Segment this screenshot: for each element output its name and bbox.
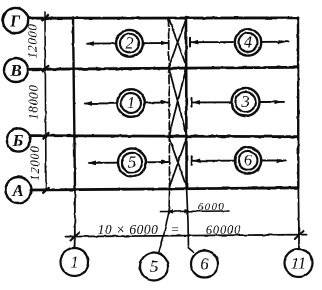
crane 3 circle	[232, 88, 260, 116]
crane 4 right arrowhead	[279, 40, 287, 44]
svg-text:10 × 6000: 10 × 6000	[98, 222, 159, 237]
svg-text:=: =	[171, 222, 180, 237]
bracing X span Б-А	[169, 139, 186, 188]
tick at axis 1	[71, 232, 80, 240]
dimension text 18000 (В-Б)	[27, 84, 41, 119]
arrow tick at axis 6	[185, 209, 191, 213]
dimension line 6000 (bay 5-6)	[161, 210, 229, 213]
dimension text 6000	[198, 201, 226, 213]
axis circle 6	[191, 251, 218, 278]
svg-text:В: В	[9, 61, 21, 80]
svg-text:2: 2	[125, 33, 133, 52]
crane 1 circle	[117, 89, 145, 117]
tick at А	[43, 188, 49, 193]
crane 2 circle	[116, 30, 143, 57]
dimension text 12000 (Б-А)	[28, 145, 42, 180]
svg-text:3: 3	[240, 92, 249, 111]
crane 5 circle	[118, 148, 146, 176]
axis 5 line (strip left)	[169, 17, 170, 190]
crane 5 runway line	[89, 161, 168, 164]
tick at axis 11	[295, 231, 304, 239]
axis circle Б	[7, 128, 30, 151]
bracing X span Г-В	[169, 20, 186, 66]
axis label 6	[200, 255, 209, 274]
axis label А	[11, 181, 23, 200]
equals sign	[171, 222, 180, 237]
axis label 11	[291, 254, 306, 273]
axis label В	[9, 61, 21, 80]
axis 6 extension leader to circle 6	[187, 189, 194, 252]
axis 6 line (strip right)	[185, 17, 188, 188]
svg-text:12000: 12000	[26, 23, 40, 58]
svg-text:6: 6	[200, 255, 209, 274]
crane 2 right arrowhead	[161, 41, 169, 45]
axis 5 extension leader to circle 5	[159, 190, 170, 254]
crane 5 label	[128, 153, 136, 172]
crane 1 right arrowhead	[161, 100, 169, 104]
crane 2 left arrowhead	[86, 41, 95, 46]
crane 6 label	[244, 150, 253, 169]
crane 3 left arrowhead	[192, 100, 200, 105]
svg-text:5: 5	[128, 153, 136, 172]
svg-text:5: 5	[150, 257, 158, 276]
axis label 1	[70, 253, 78, 272]
crane 4 stop bar	[189, 38, 191, 47]
crane 3 stop bar	[191, 98, 193, 107]
svg-text:18000: 18000	[27, 84, 41, 119]
svg-text:11: 11	[291, 254, 306, 273]
axis 11 extension line to circle 11	[297, 188, 300, 249]
crane 6 runway line	[193, 159, 286, 161]
axis 1 extension line to bottom dimension	[74, 190, 76, 248]
crane 6 right arrowhead	[276, 158, 284, 162]
wall axis 1 (left)	[73, 17, 75, 190]
crane 1 runway line	[85, 103, 168, 104]
crane 1 label	[127, 93, 135, 112]
svg-text:А: А	[11, 181, 23, 200]
crane 3 label	[240, 92, 249, 111]
dimension text 10x6000	[98, 222, 159, 237]
axis circle 5	[140, 253, 168, 281]
grid line Б	[30, 136, 298, 137]
tick at Б	[43, 133, 49, 138]
dimension text 12000 (Г-В)	[26, 23, 40, 58]
bottom main dimension line 60000	[65, 235, 306, 237]
grid line А	[32, 188, 298, 190]
axis circle 11	[285, 249, 313, 277]
crane 5 right arrowhead	[161, 160, 169, 164]
axis circle В	[4, 58, 28, 82]
wall axis 11 (right)	[297, 18, 300, 188]
crane 6 left arrowhead	[192, 159, 200, 164]
arrow tick at axis 5	[167, 209, 173, 213]
crane 4 label	[244, 32, 252, 51]
svg-text:1: 1	[70, 253, 78, 272]
svg-text:60000: 60000	[206, 223, 241, 237]
svg-text:1: 1	[127, 93, 135, 112]
svg-text:Г: Г	[9, 12, 21, 31]
grid line В	[28, 67, 298, 69]
svg-text:6000: 6000	[198, 201, 226, 213]
axis label Г	[9, 12, 21, 31]
axis circle Г	[3, 8, 28, 33]
crane 4 runway line	[191, 41, 288, 44]
crane 4 left arrowhead	[191, 40, 199, 45]
left vertical dimension line	[45, 12, 46, 190]
svg-text:6: 6	[244, 150, 253, 169]
svg-text:4: 4	[244, 32, 252, 51]
svg-text:12000: 12000	[28, 145, 42, 180]
crane 3 right arrowhead	[275, 100, 283, 104]
crane 4 circle	[235, 29, 261, 55]
crane 5 left arrowhead	[88, 161, 97, 166]
dimension text 60000	[206, 223, 241, 237]
axis circle 1	[61, 248, 89, 276]
bracing X span В-Б	[169, 68, 186, 134]
grid line Г	[28, 16, 298, 19]
svg-text:Б: Б	[12, 131, 24, 150]
crane 1 left arrowhead	[84, 101, 93, 106]
crane 2 label	[125, 33, 133, 52]
crane 6 circle	[235, 147, 261, 173]
axis label 5	[150, 257, 158, 276]
crane 2 runway line	[87, 42, 168, 45]
crane 3 runway line	[193, 101, 285, 104]
tick at В	[43, 66, 49, 71]
axis label Б	[12, 131, 24, 150]
tick at Г	[43, 15, 49, 20]
crane 6 stop bar	[191, 156, 193, 165]
axis circle А	[6, 177, 32, 203]
